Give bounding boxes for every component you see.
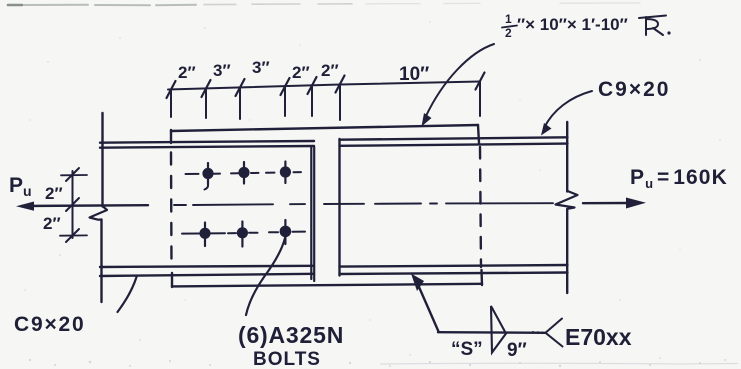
weld leader arrow to plate edge: [411, 274, 439, 332]
left dimension ticks: [66, 168, 79, 242]
dots before tail: [532, 331, 544, 334]
svg-text:BOLTS: BOLTS: [253, 349, 321, 369]
right channel web end vertical with break: [556, 122, 578, 293]
weld symbol tail: [546, 319, 563, 347]
dimension extension lines: [171, 82, 480, 120]
bolt B3 row1: [280, 162, 291, 184]
left channel web end vertical with break: [90, 113, 108, 302]
left channel cut end (double vertical): [311, 147, 314, 281]
svg-text:2: 2: [505, 26, 512, 40]
right channel bottom flange: [340, 265, 568, 274]
paper bottom edge noise: [29, 359, 726, 367]
dimension tick marks: [167, 73, 485, 99]
bolt gage line row 2 (dash-dot): [182, 232, 305, 234]
bolt B6 row2: [280, 220, 292, 244]
weld symbol triangle: [491, 306, 506, 353]
svg-text:3″: 3″: [252, 58, 270, 77]
right channel left end vertical: [338, 139, 340, 276]
svg-text:2″: 2″: [292, 63, 310, 82]
svg-text:C9×20: C9×20: [598, 78, 670, 101]
left Pu load arrow: [16, 202, 148, 211]
svg-text:2″: 2″: [321, 61, 339, 80]
leader from plate label to plate: [422, 44, 495, 127]
right channel top flange: [340, 137, 568, 146]
bolt gage line row 1 (dash-dot): [186, 172, 302, 174]
left 2" labels: [43, 184, 63, 233]
bolt B4 row2: [199, 223, 210, 247]
(6) A325N bolts label: [238, 322, 344, 369]
main centerline (dash-dot axis): [174, 203, 553, 205]
top dimension line: [168, 82, 480, 90]
svg-text:2″: 2″: [43, 214, 61, 233]
svg-text:2″: 2″: [45, 184, 63, 203]
splice plate right edge (hidden dashed): [478, 125, 482, 285]
svg-text:1: 1: [505, 12, 512, 26]
left dimension line vertical: [72, 171, 74, 238]
weld symbol reference line: [438, 331, 545, 334]
bolt B2 row1: [238, 162, 249, 184]
svg-text:2″: 2″: [178, 63, 196, 82]
left channel bottom flange: [100, 266, 314, 276]
splice plate left edge (hidden dashed): [171, 130, 172, 287]
svg-text:Pu: Pu: [9, 174, 32, 199]
svg-text:3″: 3″: [213, 61, 231, 80]
svg-text:“S”: “S”: [451, 339, 483, 360]
right Pu load arrow: [583, 198, 646, 209]
svg-text:Pu = 160K: Pu = 160K: [630, 166, 728, 191]
leader from bolts label to bolt B6: [246, 238, 285, 315]
left dimension extension bars: [60, 175, 87, 236]
bottom-right faint scan line: [380, 362, 738, 365]
svg-text:″× 10″× 1′-10″: ″× 10″× 1′-10″: [517, 15, 628, 34]
svg-text:10″: 10″: [399, 64, 429, 85]
bolt B5 row2: [237, 222, 248, 247]
splice plate top edge: [171, 125, 478, 131]
dimension labels 2" 3" 3" 2" 2": [178, 58, 339, 82]
svg-text:C9×20: C9×20: [14, 313, 85, 336]
plate size label 1/2" x 10" x 1'-10" PL.: [502, 12, 671, 40]
svg-text:(6)A325N: (6)A325N: [238, 322, 344, 348]
left channel top flange: [100, 141, 314, 148]
paper top edge scan artifact: [8, 3, 640, 5]
bolt B1 row1: [202, 163, 213, 190]
leader arc from bottom C9x20 to channel: [118, 277, 137, 312]
leader from C9x20 to right channel flange: [541, 91, 592, 136]
svg-text:9″: 9″: [507, 340, 527, 361]
PL plate symbol: [639, 16, 666, 36]
splice plate bottom edge: [172, 284, 482, 287]
svg-text:E70xx: E70xx: [565, 324, 632, 350]
